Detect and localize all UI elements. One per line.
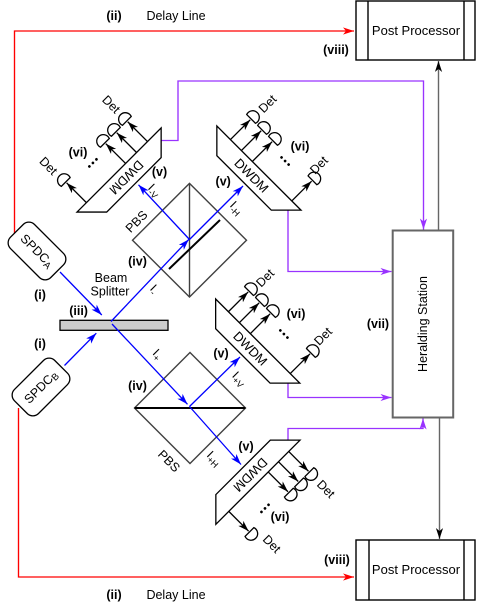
detector D1.4	[55, 171, 71, 187]
svg-text:(vi): (vi)	[291, 140, 310, 154]
svg-text:Post Processor: Post Processor	[372, 562, 461, 577]
PBS bottom splitting interface	[135, 407, 246, 409]
svg-text:Splitter: Splitter	[91, 285, 130, 299]
detector D4.4	[245, 527, 261, 543]
PBS bottom cube body	[135, 353, 246, 464]
DWDM2 body	[202, 126, 301, 225]
svg-text:(iii): (iii)	[69, 304, 88, 318]
DWDM4 detector arrow 1	[289, 451, 309, 471]
wire: purple DWDM3 to heralding station	[288, 384, 392, 398]
DWDM2 demux	[202, 82, 345, 225]
svg-text:Delay Line: Delay Line	[146, 9, 205, 23]
inner bar right	[463, 540, 465, 600]
DWDM4 detector arrow 3	[268, 472, 288, 492]
svg-text:(viii): (viii)	[323, 43, 349, 57]
svg-text:(viii): (viii)	[324, 553, 350, 567]
wire: purple DWDM2 to heralding station	[288, 211, 392, 272]
DWDM1 body	[77, 128, 176, 227]
DWDM1 detector arrow 1	[128, 122, 148, 142]
DWDM3 detector arrow 2	[239, 303, 259, 323]
detector D3.1	[244, 280, 260, 296]
wire: purple DWDM4 to heralding station	[288, 419, 423, 441]
beam splitter BS (iii)	[60, 320, 168, 330]
DWDM3 detector arrow 1	[228, 292, 248, 312]
detector D4.1	[305, 467, 321, 483]
PBS top (iv)	[133, 183, 247, 297]
svg-text:(v): (v)	[238, 440, 253, 454]
beam: I+V to DWDM3 (blue)	[190, 357, 241, 407]
detector D2.3	[268, 130, 284, 146]
wire: purple DWDM1 to heralding station	[162, 81, 424, 230]
DWDM1 demux	[33, 84, 176, 227]
post processor bottom box	[356, 540, 475, 600]
detector D1.3	[94, 132, 110, 148]
DWDM1 detector arrow 2	[117, 133, 137, 153]
svg-text:(v): (v)	[213, 347, 228, 361]
svg-text:(vi): (vi)	[271, 510, 290, 524]
wire: bottom delay line (red)	[19, 408, 355, 577]
svg-text:(v): (v)	[152, 165, 167, 179]
detector D4.3	[284, 488, 300, 504]
DWDM4 detector arrow 2	[278, 462, 298, 482]
heralding station U3	[393, 231, 454, 418]
DWDM2 detector arrow 1	[230, 120, 250, 140]
detector D2.2	[257, 119, 273, 135]
svg-text:(ii): (ii)	[106, 588, 121, 602]
DWDM3 detector arrow 4	[290, 354, 310, 374]
DWDM1 detector arrow 4	[67, 183, 87, 203]
DWDM3 detector arrow 3	[250, 314, 270, 334]
ellipsis dots	[87, 157, 98, 168]
ellipsis dots	[280, 156, 291, 167]
SPDC A box	[5, 219, 69, 283]
detector D2.1	[246, 108, 262, 124]
post processor top box	[356, 1, 475, 60]
DWDM4 body	[201, 425, 300, 524]
beam: I-V to DWDM1 (blue)	[139, 185, 190, 240]
svg-text:(ii): (ii)	[106, 9, 121, 23]
beam: I+ to bottom PBS (blue)	[112, 324, 188, 404]
PBS top vertical diagonal	[189, 183, 191, 297]
ellipsis dots	[260, 503, 271, 514]
wire: gray connector bottom	[439, 418, 441, 540]
detector D2.4	[308, 169, 324, 185]
DWDM4 demux	[201, 425, 345, 569]
post processor top U1	[356, 1, 475, 60]
inner bar right	[463, 1, 465, 60]
DWDM3 demux	[201, 257, 342, 398]
detector D3.3	[266, 302, 282, 318]
DWDM2 detector arrow 2	[241, 131, 261, 151]
post processor bottom U2	[356, 540, 475, 600]
inner bar left	[368, 540, 370, 600]
PBS bottom (iv)	[135, 353, 246, 464]
heralding station box	[393, 231, 454, 418]
SPDC B source	[9, 355, 73, 419]
beam: I- to top PBS (blue)	[111, 239, 189, 321]
svg-text:Post Processor: Post Processor	[372, 23, 461, 38]
detector D3.4	[306, 342, 322, 358]
DWDM2 detector arrow 3	[252, 142, 272, 162]
svg-text:Heralding Station: Heralding Station	[416, 276, 430, 372]
svg-text:(vii): (vii)	[367, 317, 389, 331]
beam: I-H to DWDM2 (blue)	[190, 186, 244, 240]
PBS top splitting interface	[169, 220, 220, 269]
svg-text:Beam: Beam	[95, 271, 128, 285]
DWDM4 detector arrow 4	[229, 511, 249, 531]
DWDM1 detector arrow 3	[106, 144, 126, 164]
detector D3.2	[255, 291, 271, 307]
detector D1.1	[116, 110, 132, 126]
PBS top cube body	[133, 183, 247, 297]
detector D4.2	[294, 478, 310, 494]
ellipsis dots	[278, 329, 289, 340]
SPDC B box	[9, 355, 73, 419]
svg-text:(vi): (vi)	[69, 146, 88, 160]
wire: top delay line (red)	[15, 31, 355, 233]
svg-text:(i): (i)	[34, 337, 46, 351]
svg-text:Delay Line: Delay Line	[146, 588, 205, 602]
beam: I+H to DWDM4 (blue)	[190, 407, 242, 465]
SPDC A source	[5, 219, 69, 283]
svg-text:(iv): (iv)	[128, 379, 147, 393]
detector D1.2	[105, 121, 121, 137]
DWDM3 body	[201, 299, 300, 398]
svg-text:(iv): (iv)	[128, 255, 147, 269]
beam: SPDC A to beam splitter (blue)	[60, 272, 102, 315]
wire: gray connector top	[438, 61, 440, 230]
svg-text:(v): (v)	[216, 175, 231, 189]
svg-text:(vi): (vi)	[287, 307, 306, 321]
beam: SPDC B to beam splitter (blue)	[65, 333, 97, 365]
DWDM2 detector arrow 4	[292, 181, 312, 201]
svg-text:(i): (i)	[34, 288, 46, 302]
inner bar left	[367, 1, 369, 60]
